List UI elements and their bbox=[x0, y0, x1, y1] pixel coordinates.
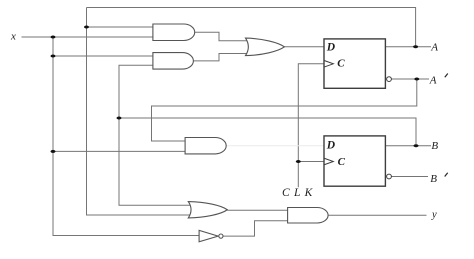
not-gate inverter (x') triangle bbox=[199, 230, 218, 241]
junction node A' bbox=[414, 78, 419, 81]
and-gate AND2 (B·x) bbox=[153, 53, 193, 70]
svg-text:A: A bbox=[429, 74, 437, 86]
svg-text:CLK: CLK bbox=[282, 187, 317, 199]
wire top rail A feedback bbox=[87, 8, 416, 47]
and-gate AND3 (A'·x) bbox=[185, 138, 226, 154]
and-gate AND4 (output y) bbox=[288, 208, 329, 224]
svg-text:B: B bbox=[431, 140, 438, 152]
svg-text:y: y bbox=[431, 210, 437, 221]
flip-flop U1 box (A) bbox=[324, 39, 385, 88]
junction A feedback to AND1 bbox=[84, 26, 89, 29]
flip-flop U1 complement bubble bbox=[387, 77, 392, 82]
junction node B bbox=[414, 144, 419, 147]
junction x to AND2 bbox=[51, 55, 56, 58]
and-gate AND1 (A·x) bbox=[153, 24, 195, 41]
svg-text:C: C bbox=[337, 57, 345, 69]
junction on x lead bbox=[51, 36, 56, 39]
flip-flop U1 clock wedge bbox=[324, 60, 334, 67]
junction CLK to FF2 C bbox=[296, 160, 301, 163]
not-gate inverter bubble bbox=[219, 234, 223, 238]
svg-text:C: C bbox=[338, 156, 346, 168]
wire AND1 output to OR1 bbox=[194, 32, 250, 41]
wire AND2 output to OR1 bbox=[193, 54, 250, 61]
svg-text:D: D bbox=[326, 140, 336, 152]
label prime of B' bbox=[445, 173, 448, 177]
wire x input lead to AND1 bbox=[22, 36, 155, 38]
wire FF2 Q' output to B' bbox=[392, 176, 429, 178]
wire x branch to AND3 bottom input bbox=[53, 150, 186, 152]
wire FF1 Q output to A bbox=[385, 46, 431, 48]
wire FF2 Q output to B bbox=[385, 145, 431, 147]
flip-flop U2 clock wedge bbox=[324, 158, 334, 165]
flip-flop U2 complement bubble bbox=[387, 174, 392, 179]
junction x to AND3 bbox=[51, 150, 56, 153]
wire B feedback horizontal to B node bbox=[119, 118, 416, 146]
wire CLK line to FF1 C and down bbox=[298, 64, 324, 187]
or-gate OR1 (feeds D of FF1) bbox=[246, 38, 285, 56]
wire AND3 output to FF2 D input bbox=[226, 145, 324, 147]
wire OR1 output to FF1 D input bbox=[284, 46, 324, 48]
junction node A bbox=[413, 45, 418, 48]
wire x bus vertical down to NOT input bbox=[53, 37, 201, 236]
label prime of A' bbox=[445, 74, 448, 78]
flip-flop U2 box (B) bbox=[324, 136, 385, 186]
wire left A-bus vertical to OR2 bottom input bbox=[87, 8, 194, 216]
junction B feedback bbox=[117, 117, 122, 120]
wire x branch to AND2 top input bbox=[53, 55, 154, 57]
svg-text:x: x bbox=[10, 31, 16, 43]
wire A branch to AND1 top input bbox=[87, 26, 155, 28]
or-gate OR2 (A+B) bbox=[188, 202, 227, 218]
svg-text:A: A bbox=[430, 42, 438, 54]
wire A' feedback to AND3 top input bbox=[152, 79, 417, 141]
svg-text:D: D bbox=[326, 42, 336, 54]
svg-text:B: B bbox=[430, 173, 437, 185]
wire OR2 output to AND4 bbox=[227, 209, 289, 211]
wire CLK branch to FF2 C bbox=[298, 161, 324, 163]
wire B bus: AND2 bottom input down to OR2 top input bbox=[119, 65, 193, 205]
wire NOT output to AND4 bottom input bbox=[223, 221, 289, 236]
wire FF1 Q' output to A' bbox=[392, 78, 430, 80]
wire AND4 output to y bbox=[328, 214, 426, 216]
